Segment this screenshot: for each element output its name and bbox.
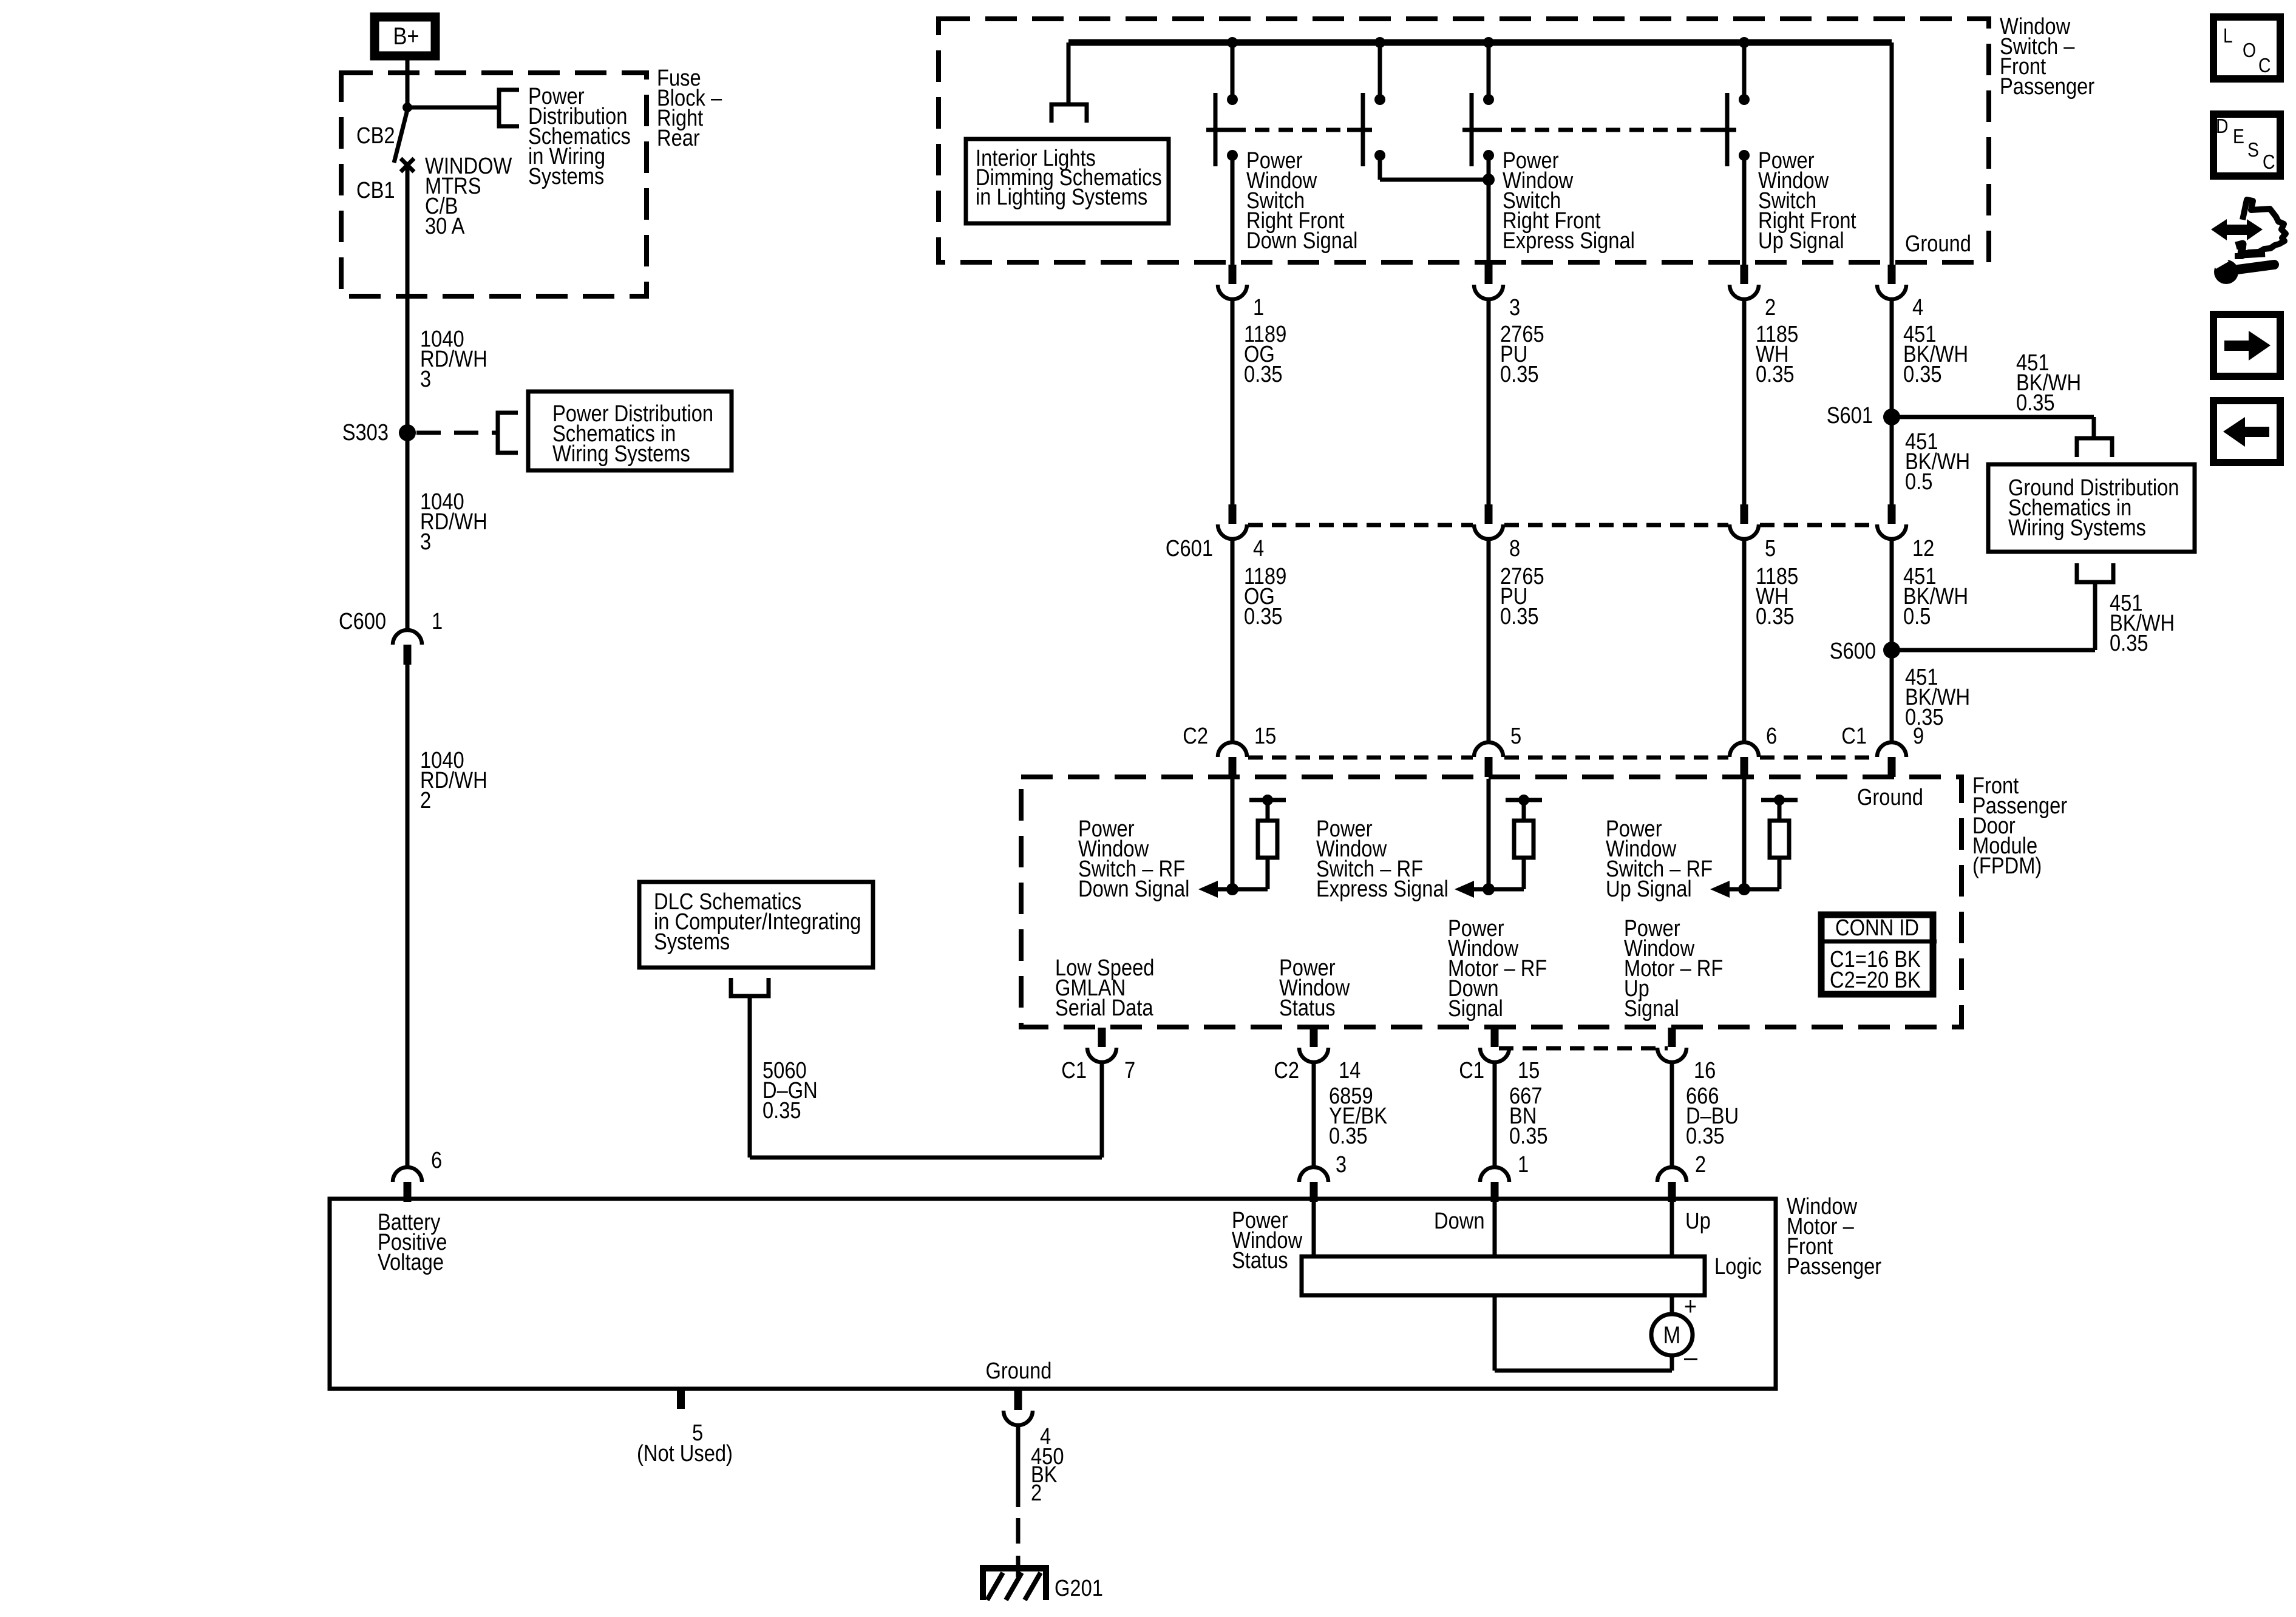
svg-text:Passenger: Passenger (1787, 1253, 1881, 1280)
svg-text:B+: B+ (393, 22, 419, 50)
svg-text:1: 1 (432, 608, 443, 634)
svg-text:C2: C2 (1274, 1057, 1299, 1083)
svg-text:C600: C600 (339, 608, 386, 634)
svg-text:(Not Used): (Not Used) (637, 1440, 733, 1466)
svg-text:Express Signal: Express Signal (1503, 228, 1635, 254)
svg-text:2: 2 (1695, 1151, 1706, 1178)
svg-text:Status: Status (1279, 995, 1336, 1021)
svg-text:12: 12 (1912, 535, 1934, 561)
svg-text:2: 2 (1031, 1480, 1042, 1506)
svg-text:Passenger: Passenger (2000, 73, 2094, 100)
svg-text:Status: Status (1232, 1247, 1288, 1273)
svg-text:(FPDM): (FPDM) (1972, 853, 2042, 879)
svg-text:CB2: CB2 (356, 123, 395, 149)
svg-text:C1: C1 (1459, 1057, 1484, 1083)
svg-text:0.35: 0.35 (2016, 390, 2055, 416)
svg-text:0.5: 0.5 (1905, 469, 1932, 495)
svg-text:–: – (1684, 1341, 1697, 1372)
svg-text:S600: S600 (1830, 638, 1876, 664)
svg-text:30 A: 30 A (425, 213, 465, 239)
svg-text:Express Signal: Express Signal (1316, 876, 1449, 902)
svg-text:D: D (2216, 115, 2228, 138)
svg-text:L: L (2223, 24, 2233, 47)
svg-text:C2=20 BK: C2=20 BK (1830, 967, 1921, 993)
svg-text:Down Signal: Down Signal (1246, 228, 1357, 254)
svg-text:C1: C1 (1841, 723, 1867, 749)
svg-text:0.35: 0.35 (1756, 361, 1795, 387)
svg-text:Wiring Systems: Wiring Systems (2008, 515, 2146, 541)
svg-text:Up Signal: Up Signal (1758, 228, 1844, 254)
svg-text:Up: Up (1685, 1208, 1711, 1234)
svg-text:3: 3 (420, 366, 431, 392)
svg-text:Rear: Rear (657, 125, 700, 151)
svg-text:+: + (1684, 1293, 1697, 1321)
svg-text:1: 1 (1518, 1151, 1529, 1178)
svg-text:Systems: Systems (528, 163, 604, 189)
svg-text:7: 7 (1124, 1057, 1135, 1083)
svg-text:5: 5 (1510, 723, 1521, 749)
svg-text:6: 6 (431, 1147, 442, 1173)
svg-text:3: 3 (420, 529, 431, 555)
svg-text:Signal: Signal (1448, 995, 1503, 1022)
svg-text:C2: C2 (1183, 723, 1208, 749)
svg-text:16: 16 (1694, 1057, 1716, 1083)
svg-text:2: 2 (1765, 294, 1776, 320)
svg-text:15: 15 (1254, 723, 1276, 749)
svg-text:0.35: 0.35 (1244, 361, 1283, 387)
svg-text:2: 2 (420, 787, 431, 813)
svg-text:0.5: 0.5 (1903, 603, 1931, 629)
svg-text:0.35: 0.35 (1500, 603, 1539, 629)
svg-text:Voltage: Voltage (378, 1249, 444, 1275)
svg-text:14: 14 (1339, 1057, 1360, 1083)
svg-text:CONN ID: CONN ID (1835, 915, 1919, 941)
svg-text:C1: C1 (1061, 1057, 1087, 1083)
svg-text:S303: S303 (342, 419, 389, 446)
svg-text:3: 3 (1509, 294, 1520, 320)
svg-text:3: 3 (1336, 1151, 1347, 1178)
svg-text:0.35: 0.35 (1500, 361, 1539, 387)
svg-text:15: 15 (1518, 1057, 1540, 1083)
svg-text:Ground: Ground (1857, 784, 1923, 810)
svg-text:Up Signal: Up Signal (1606, 876, 1692, 902)
svg-text:6: 6 (1766, 723, 1777, 749)
svg-text:Serial Data: Serial Data (1055, 995, 1153, 1021)
svg-text:0.35: 0.35 (1756, 603, 1795, 629)
svg-text:5: 5 (1765, 535, 1776, 561)
svg-text:E: E (2233, 125, 2244, 148)
svg-text:O: O (2243, 39, 2256, 62)
svg-text:0.35: 0.35 (1903, 361, 1942, 387)
svg-text:Down: Down (1434, 1208, 1485, 1234)
svg-text:CB1: CB1 (356, 177, 395, 203)
svg-text:0.35: 0.35 (1329, 1123, 1368, 1149)
svg-text:C: C (2263, 151, 2275, 174)
svg-text:Systems: Systems (654, 929, 730, 955)
svg-text:Ground: Ground (986, 1358, 1052, 1384)
svg-text:4: 4 (1253, 535, 1264, 561)
svg-text:Ground: Ground (1905, 231, 1971, 257)
svg-text:Wiring Systems: Wiring Systems (552, 441, 690, 467)
svg-text:0.35: 0.35 (1686, 1123, 1725, 1149)
svg-text:0.35: 0.35 (1905, 704, 1944, 730)
svg-text:0.35: 0.35 (763, 1097, 801, 1124)
svg-text:in Lighting Systems: in Lighting Systems (976, 184, 1147, 210)
svg-text:4: 4 (1912, 294, 1923, 320)
svg-text:0.35: 0.35 (1244, 603, 1283, 629)
svg-text:C: C (2258, 54, 2271, 77)
svg-text:Down Signal: Down Signal (1078, 876, 1189, 902)
svg-text:S: S (2247, 138, 2259, 161)
svg-text:0.35: 0.35 (1509, 1123, 1548, 1149)
svg-text:G201: G201 (1055, 1575, 1103, 1601)
svg-text:S601: S601 (1827, 402, 1873, 429)
svg-text:M: M (1663, 1321, 1681, 1349)
svg-text:1: 1 (1253, 294, 1264, 320)
svg-text:9: 9 (1913, 723, 1924, 749)
svg-text:Signal: Signal (1624, 995, 1679, 1022)
svg-text:8: 8 (1509, 535, 1520, 561)
svg-text:C601: C601 (1166, 535, 1213, 561)
svg-text:0.35: 0.35 (2110, 630, 2148, 656)
svg-text:Logic: Logic (1714, 1253, 1762, 1280)
